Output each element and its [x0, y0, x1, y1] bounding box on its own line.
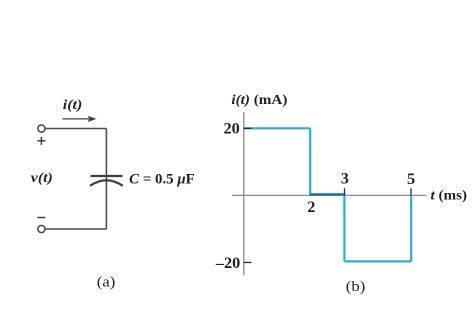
svg-text:i(t) (mA): i(t) (mA): [231, 93, 287, 108]
tick 3: [344, 188, 346, 195]
wire bottom horizontal: [45, 228, 106, 230]
waveform drop at t=3: [343, 194, 345, 261]
wire top horizontal: [45, 128, 106, 130]
wire right vertical: [105, 129, 107, 230]
svg-text:20: 20: [224, 118, 240, 137]
tick 20: [244, 127, 252, 129]
tick -20: [244, 262, 252, 264]
x-axis: [232, 194, 427, 196]
tick 5: [410, 188, 412, 195]
waveform rise at t=5: [410, 195, 412, 261]
svg-text:–20: –20: [215, 253, 240, 272]
svg-text:C = 0.5 μF: C = 0.5 μF: [129, 172, 195, 188]
svg-text:2: 2: [307, 197, 315, 216]
capacitor C1 top plate: [91, 175, 123, 177]
terminal bottom: [38, 225, 45, 232]
svg-text:5: 5: [407, 169, 415, 188]
current arrow: [63, 116, 97, 122]
svg-text:i(t): i(t): [63, 98, 83, 113]
waveform drop at t=2: [309, 128, 311, 196]
y-axis: [243, 112, 245, 275]
waveform 20mA segment: [245, 127, 311, 129]
terminal top: [38, 125, 45, 132]
svg-text:3: 3: [341, 168, 349, 187]
capacitor C1 curved plate: [90, 180, 123, 186]
waveform zero segment t=2..3: [310, 193, 344, 195]
svg-text:(a): (a): [97, 275, 116, 291]
svg-text:(b): (b): [346, 279, 366, 295]
svg-text:t (ms): t (ms): [431, 188, 468, 203]
plus sign: [37, 137, 45, 145]
minus sign: [37, 217, 45, 219]
svg-text:v(t): v(t): [31, 171, 53, 186]
waveform -20mA segment: [344, 260, 411, 262]
